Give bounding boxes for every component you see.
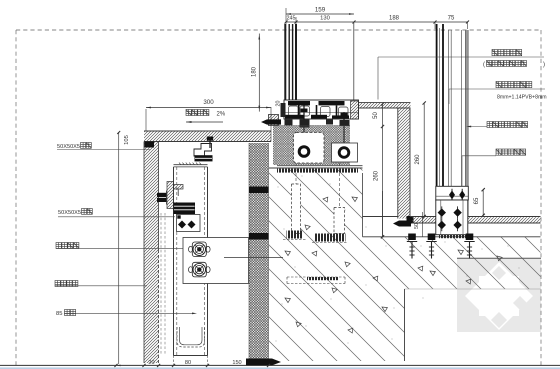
svg-text:65: 65	[474, 197, 480, 204]
label aluminum edge plate	[487, 122, 528, 128]
connection bolts box	[183, 238, 249, 284]
svg-text:150: 150	[232, 360, 241, 366]
dimension 24.5 / 130 / 188 / 75 row	[286, 21, 468, 23]
interior finish board	[465, 30, 468, 217]
sealant blob at board bottom	[407, 216, 414, 224]
vertical bowtie arrows	[449, 190, 455, 199]
dimension 159	[286, 13, 354, 15]
watermark logo	[457, 258, 541, 332]
bottom blue strip	[0, 367, 560, 369]
transom fixing bolts	[303, 105, 305, 146]
bolt donut left	[299, 147, 309, 157]
vertical insulation strip	[249, 143, 269, 363]
transom left end cap	[269, 115, 279, 126]
dashed border frame	[16, 29, 541, 31]
left connector to mullion	[281, 103, 286, 117]
svg-text:75: 75	[448, 16, 455, 22]
vertical dimension 180	[258, 34, 260, 112]
label laminated glass with leader	[449, 88, 545, 90]
svg-text:245: 245	[287, 16, 296, 22]
white void box dashed	[294, 133, 325, 164]
interior upstand board hatched	[398, 108, 410, 219]
post 1 dashed white	[292, 184, 301, 234]
bottom dimension ticks and numbers	[114, 364, 117, 367]
svg-text:180: 180	[252, 66, 258, 77]
window sill board hatched	[354, 103, 411, 108]
hatched piece right of transom	[351, 101, 359, 119]
transom mid web lines	[284, 112, 359, 114]
serrated clamp block	[174, 203, 196, 215]
black arrow pointing left	[261, 119, 281, 124]
svg-text:8mm+1.14PVB+8mm: 8mm+1.14PVB+8mm	[497, 95, 547, 101]
embed plate 1	[287, 231, 303, 239]
white void box right	[332, 143, 358, 162]
floor line	[363, 216, 398, 218]
transom bottom chord dark segments	[285, 115, 304, 119]
svg-text:50X50X5: 50X50X5	[57, 144, 80, 150]
svg-text:300: 300	[203, 99, 214, 106]
svg-text:85: 85	[56, 311, 62, 317]
concrete speckle dots	[276, 176, 520, 344]
serrated embed band	[277, 169, 358, 173]
svg-text:50: 50	[414, 223, 420, 229]
outer dim 260	[423, 103, 425, 217]
label horizontal keel	[55, 281, 78, 287]
laminated glass panes 8mm+1.14PVB+8mm	[436, 24, 438, 187]
support bracket box	[436, 200, 468, 235]
anchor bolt on Z bracket	[207, 137, 213, 141]
bolt symbol at y=269.6	[192, 262, 206, 277]
label interior sill note with leader	[378, 56, 544, 58]
box bottom dashes to dim line	[173, 356, 175, 365]
dim 65	[482, 190, 484, 216]
bracket diamond bolts	[438, 208, 446, 216]
svg-text:): )	[543, 62, 545, 68]
svg-text:260: 260	[374, 170, 380, 181]
svg-text:50: 50	[373, 112, 379, 119]
bottom edge line	[0, 364, 560, 366]
inner dim line 50/260	[382, 104, 384, 237]
concrete slab hatched region	[269, 168, 541, 361]
bolt heads through wall	[157, 193, 167, 197]
anchor angle	[174, 185, 184, 190]
concrete aggregate triangles	[285, 197, 502, 333]
anchor bolts into slab	[408, 234, 416, 241]
cavity panel lines	[382, 191, 384, 237]
embed plate box with weld diamonds	[177, 215, 201, 232]
svg-text:260: 260	[415, 154, 421, 165]
small dim 50 at floor	[421, 212, 423, 237]
drainage slope 2% note	[186, 110, 209, 116]
dimension 300	[146, 107, 271, 109]
mullion box serrated top	[174, 164, 208, 166]
lower embed dashed row	[307, 277, 338, 280]
black arrow at skirting	[393, 221, 411, 227]
interior window frame face line	[353, 22, 355, 103]
serrated embed bar under bracket	[439, 235, 466, 239]
transom vertical dividers	[298, 105, 300, 115]
sealant blob on band end	[145, 142, 155, 148]
springs insulation under transom	[273, 125, 350, 165]
long extension line	[118, 132, 120, 364]
insulation break blobs	[249, 187, 269, 194]
svg-text:20: 20	[148, 360, 154, 366]
Z bracket	[194, 144, 212, 157]
bottom insulation cap arrow	[246, 359, 281, 366]
glass bottom frame	[436, 186, 469, 200]
post 2 dashed white	[334, 208, 345, 234]
floor screed hatched band	[412, 217, 541, 223]
dimension 105	[117, 131, 120, 134]
embed plate 2	[315, 234, 346, 242]
label galvanized bracket	[56, 243, 79, 249]
transom profile body	[284, 100, 359, 119]
window mullion section above sill	[284, 24, 286, 106]
glazing bead lines	[448, 30, 450, 187]
svg-text:2%: 2%	[217, 112, 226, 118]
bolt centerlines dashed	[295, 163, 297, 230]
screed band on slab	[144, 131, 271, 142]
U channel inside mullion bottom	[177, 327, 205, 347]
sill closure double line	[277, 165, 363, 167]
svg-text:80: 80	[185, 360, 191, 366]
black clamp bar	[195, 155, 213, 161]
mullion box body	[173, 167, 175, 356]
svg-text:159: 159	[315, 7, 326, 14]
vertical anchor plate hatched	[167, 182, 174, 209]
svg-text:130: 130	[320, 16, 330, 22]
label aluminum clip	[496, 149, 526, 155]
bolt symbol at y=249.3	[192, 242, 206, 257]
hardware below transom	[285, 120, 293, 126]
leader line across insulation	[224, 257, 283, 259]
concrete edge lines	[269, 167, 363, 169]
bolt donut right	[339, 148, 349, 158]
svg-text:188: 188	[389, 16, 400, 22]
anchor projection dashed lines	[160, 213, 162, 355]
svg-text:50X50X5: 50X50X5	[58, 210, 81, 216]
svg-text:(: (	[483, 62, 485, 68]
masonry wall strip hatched	[144, 142, 159, 364]
svg-text:105: 105	[124, 135, 130, 145]
